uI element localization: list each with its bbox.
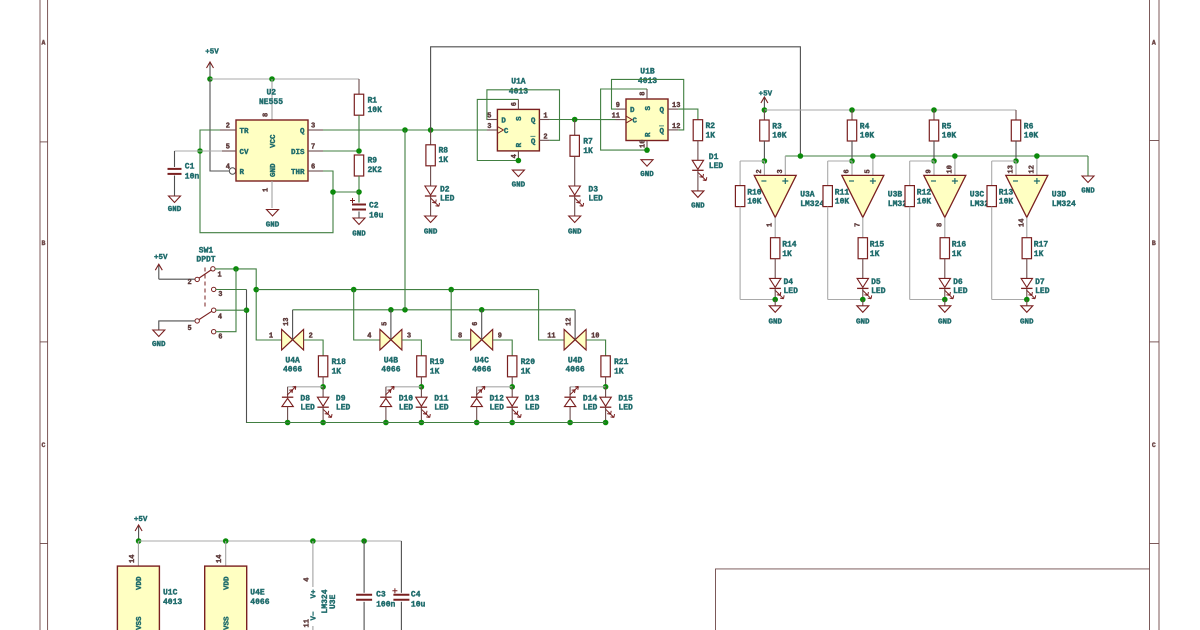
svg-text:5: 5	[187, 325, 191, 333]
wire input bus to U4D pin 11	[539, 290, 565, 340]
resistor R19	[417, 356, 426, 377]
resistor R7	[570, 135, 579, 156]
resistor R5	[929, 120, 938, 141]
U1B pin D stub	[616, 108, 626, 110]
svg-text:5: 5	[226, 144, 230, 152]
wire U3C minus branch	[910, 160, 934, 162]
svg-text:1K: 1K	[430, 367, 440, 376]
svg-text:10u: 10u	[411, 601, 426, 610]
wire R2 to D1	[697, 141, 699, 161]
svg-text:1K: 1K	[332, 367, 342, 376]
svg-text:D11: D11	[434, 395, 449, 404]
svg-text:CV: CV	[240, 149, 250, 157]
svg-text:R9: R9	[368, 157, 378, 166]
svg-text:R4: R4	[860, 122, 870, 131]
wire 4066 input bus	[256, 289, 538, 291]
ic U4E power body	[205, 566, 247, 630]
svg-text:Q: Q	[531, 138, 536, 146]
svg-text:D6: D6	[953, 278, 963, 287]
svg-text:LM324: LM324	[1052, 200, 1076, 209]
svg-text:8: 8	[263, 113, 271, 117]
wire R18 to D9	[322, 377, 324, 387]
svg-text:U4B: U4B	[384, 357, 399, 366]
svg-text:D10: D10	[399, 395, 414, 404]
wire +5V comparator bus	[764, 109, 1016, 111]
capacitor C3 pin bottom	[363, 602, 365, 630]
junction node U1A Q/R7	[572, 117, 578, 123]
U2 pin 4 inversion circle	[229, 168, 235, 174]
U2 pin 6 THR stub	[308, 170, 323, 172]
resistor R11	[823, 186, 832, 207]
capacitor C4 pin bottom	[400, 602, 402, 630]
wire SW1 pin 3 out	[216, 289, 247, 291]
svg-text:10K: 10K	[860, 132, 875, 141]
svg-text:3: 3	[407, 332, 411, 340]
junction node D5 cathode	[860, 297, 866, 303]
wire R14 to D4	[774, 259, 776, 279]
LED D11	[416, 397, 427, 406]
svg-text:4013: 4013	[638, 77, 657, 86]
resistor R18	[318, 356, 327, 377]
+5V power symbol (SW1)	[158, 264, 160, 279]
svg-text:6: 6	[218, 333, 222, 341]
svg-text:R20: R20	[521, 358, 536, 367]
svg-text:4066: 4066	[472, 366, 491, 375]
wire R11 bottom leg	[827, 207, 829, 300]
junction node U3C minus input	[931, 158, 937, 164]
wire D9 top stub	[322, 387, 324, 397]
wire U3D minus branch	[992, 160, 1016, 162]
wire THR branch to C2	[333, 191, 359, 193]
svg-text:2: 2	[309, 332, 313, 340]
svg-text:C: C	[1152, 442, 1156, 449]
junction node D11/return bus	[419, 420, 425, 426]
junction node ctrl/555 Q	[402, 307, 408, 313]
junction node R21/D15/D14	[603, 384, 609, 390]
svg-text:8: 8	[640, 92, 648, 96]
analog switch U4C body	[471, 329, 482, 350]
svg-text:LED: LED	[434, 403, 449, 412]
svg-text:U1C: U1C	[163, 589, 178, 598]
svg-text:VDD: VDD	[224, 576, 232, 590]
junction node +5V/R4	[849, 107, 855, 113]
wire Q to comparator bus link	[431, 47, 801, 156]
svg-text:3: 3	[311, 123, 315, 131]
LED D4	[770, 278, 781, 287]
svg-text:LED: LED	[583, 403, 598, 412]
svg-text:8: 8	[458, 332, 462, 340]
ground symbol below C1	[169, 196, 181, 203]
svg-text:LM324: LM324	[800, 200, 824, 209]
junction node D6 cathode	[942, 297, 948, 303]
svg-text:THR: THR	[291, 169, 305, 177]
svg-text:7: 7	[311, 144, 315, 152]
svg-text:D7: D7	[1035, 278, 1045, 287]
wire D7 to junction	[1026, 289, 1028, 300]
svg-text:3: 3	[487, 123, 491, 131]
svg-text:GND: GND	[1081, 188, 1095, 196]
wire D14 top stub	[569, 387, 571, 397]
svg-text:10K: 10K	[772, 132, 787, 141]
wire U3A output stub	[774, 217, 776, 237]
resistor R17	[1022, 238, 1031, 259]
junction node SW1 pin1/pin6 tie	[233, 266, 239, 272]
svg-text:GND: GND	[152, 341, 166, 349]
svg-text:U4E: U4E	[250, 589, 265, 598]
svg-text:Q: Q	[659, 107, 664, 115]
capacitor C1 pin bottom	[174, 176, 176, 197]
svg-text:14: 14	[129, 555, 137, 563]
svg-text:C2: C2	[369, 202, 379, 211]
svg-text:10K: 10K	[747, 198, 762, 207]
U2 pin 3 Q stub	[308, 129, 323, 131]
svg-text:4066: 4066	[381, 366, 400, 375]
svg-text:10K: 10K	[999, 198, 1014, 207]
svg-text:1: 1	[269, 332, 273, 340]
wire D4 to junction	[774, 289, 776, 300]
svg-text:D: D	[630, 107, 635, 115]
svg-text:R18: R18	[332, 358, 347, 367]
svg-text:2: 2	[543, 133, 547, 141]
svg-text:10: 10	[946, 165, 954, 173]
junction node D9/return bus	[320, 420, 326, 426]
svg-text:Q: Q	[300, 128, 305, 136]
wire D1 to GND	[697, 171, 699, 191]
svg-text:1K: 1K	[1034, 250, 1044, 259]
svg-text:U3B: U3B	[888, 191, 903, 200]
U3B plus mark	[870, 178, 876, 184]
wire D8 link	[288, 386, 324, 388]
U3E pin 11 V- stub	[312, 626, 314, 630]
LED D13	[507, 397, 518, 406]
svg-text:U4C: U4C	[474, 357, 489, 366]
svg-text:D2: D2	[440, 186, 450, 195]
capacitor C4 wire from rail	[400, 541, 402, 593]
wire R6 bottom to minus input	[1015, 141, 1017, 161]
U4D control pin stub	[574, 310, 576, 340]
LED D7	[1021, 278, 1032, 287]
wire +5V power rail	[139, 540, 402, 542]
wire R15 to D5	[862, 259, 864, 279]
ground symbol below D7	[1021, 306, 1033, 313]
LED D6	[939, 278, 950, 287]
wire D14 link	[570, 386, 606, 388]
svg-text:GND: GND	[352, 231, 366, 239]
switch SW1 pole link dashed line	[204, 268, 206, 309]
svg-text:D: D	[501, 118, 506, 126]
svg-text:1K: 1K	[614, 367, 624, 376]
svg-text:10u: 10u	[369, 212, 384, 221]
svg-text:6: 6	[311, 164, 315, 172]
wire SW1 pin3 drop to LED return bus	[247, 290, 288, 423]
svg-text:D14: D14	[583, 395, 598, 404]
svg-text:TR: TR	[240, 128, 250, 136]
svg-text:R19: R19	[430, 358, 445, 367]
svg-text:A: A	[42, 40, 46, 47]
U4A control pin stub	[292, 310, 294, 340]
op-amp U2 NE555 body	[236, 120, 308, 181]
svg-text:4: 4	[303, 577, 311, 581]
svg-text:1K: 1K	[782, 250, 792, 259]
svg-text:5: 5	[487, 113, 491, 121]
svg-text:6: 6	[511, 102, 519, 106]
wire R12 pin top	[909, 161, 911, 186]
wire U4B output to R19	[402, 340, 422, 356]
svg-text:14: 14	[216, 555, 224, 563]
svg-text:D9: D9	[336, 395, 346, 404]
svg-text:R: R	[516, 142, 524, 147]
svg-text:LED: LED	[618, 403, 633, 412]
wire U3C minus stub	[933, 161, 935, 175]
junction node rail/U3E	[310, 538, 316, 544]
wire D10 link	[386, 386, 422, 388]
junction node R19/D11/D10	[419, 384, 425, 390]
wire R13 to LED cathode	[992, 299, 1027, 301]
wire D8 bottom stub	[287, 407, 289, 423]
svg-text:GND: GND	[512, 181, 526, 189]
op-amp U3A body	[754, 175, 796, 217]
wire R10 pin top	[739, 161, 741, 186]
capacitor C2	[352, 204, 366, 206]
wire R4 bottom to minus input	[851, 141, 853, 161]
svg-text:D15: D15	[618, 395, 633, 404]
LED D5	[857, 278, 868, 287]
svg-text:GND: GND	[168, 206, 182, 214]
svg-text:GND: GND	[568, 229, 582, 237]
junction node THR branch	[330, 189, 336, 195]
junction node input bus/U4C	[448, 287, 454, 293]
wire R7 top	[574, 120, 576, 136]
junction node +5V/R3	[762, 107, 768, 113]
wire U3B output stub	[862, 217, 864, 237]
junction node D12/return bus	[474, 420, 480, 426]
op-amp U3C body	[924, 175, 966, 217]
wire R19 to D11	[420, 377, 422, 387]
LED D3	[569, 186, 580, 195]
svg-text:GND: GND	[691, 203, 705, 211]
capacitor C1	[168, 168, 182, 170]
svg-text:4: 4	[367, 332, 371, 340]
U3C minus mark	[931, 180, 936, 182]
wire SW1 pin 4 out	[216, 309, 247, 311]
wire D5 junction to GND	[862, 300, 864, 306]
svg-text:S: S	[516, 116, 524, 121]
analog switch U4D body	[564, 329, 575, 350]
wire R10 bottom leg	[739, 207, 741, 300]
wire +5V to SW1 pin 2	[159, 278, 195, 280]
svg-text:LED: LED	[709, 162, 724, 171]
wire R4 pin top	[851, 110, 853, 120]
svg-text:R11: R11	[835, 188, 850, 197]
svg-text:10K: 10K	[942, 132, 957, 141]
wire D9 bottom stub	[322, 408, 324, 423]
resistor R20	[508, 356, 517, 377]
svg-text:LED: LED	[490, 403, 505, 412]
svg-text:B: B	[42, 240, 46, 247]
wire input bus to U4B pin 4	[354, 290, 380, 340]
wire D7 junction to GND	[1026, 300, 1028, 306]
U3C plus mark	[952, 178, 958, 184]
svg-text:9: 9	[926, 169, 934, 173]
svg-text:LED: LED	[953, 287, 968, 296]
ground symbol below D4	[769, 306, 781, 313]
svg-text:9: 9	[616, 102, 620, 110]
svg-text:8: 8	[936, 223, 944, 227]
wire R11 to LED cathode	[828, 299, 863, 301]
svg-text:4: 4	[226, 164, 230, 172]
svg-text:R1: R1	[368, 97, 378, 106]
svg-text:9: 9	[498, 332, 502, 340]
svg-text:1: 1	[218, 272, 222, 280]
junction node CV tap	[197, 148, 203, 154]
U2 pin 1 GND stub	[271, 181, 273, 208]
svg-text:SW1: SW1	[199, 247, 214, 256]
U1B Qbar to D feedback wire	[612, 79, 684, 129]
svg-text:U3D: U3D	[1052, 191, 1067, 200]
wire SW1 pin 1 out	[215, 269, 282, 340]
U3D plus mark	[1034, 178, 1040, 184]
LED D1	[692, 160, 703, 169]
resistor R15	[858, 238, 867, 259]
svg-text:R21: R21	[614, 358, 629, 367]
U4E pin 14 VDD stub	[225, 541, 227, 566]
wire U4A output to R18	[304, 340, 324, 356]
svg-text:R8: R8	[439, 147, 449, 156]
wire U3D output stub	[1026, 217, 1028, 237]
ground symbol below U1B	[641, 160, 653, 167]
wire R1 pin top	[358, 79, 360, 94]
resistor R8	[426, 145, 435, 166]
wire U3C plus stub	[954, 156, 956, 175]
U1C pin 14 VDD stub	[137, 541, 139, 566]
wire U1A Q to U1B clock	[550, 119, 616, 121]
svg-text:R17: R17	[1034, 241, 1049, 250]
flip-flop U1B body	[626, 99, 668, 141]
svg-text:GND: GND	[640, 171, 654, 179]
junction node bus/Q link	[798, 153, 804, 159]
svg-text:+5V: +5V	[134, 516, 148, 524]
svg-text:LED: LED	[1035, 287, 1050, 296]
svg-text:GND: GND	[270, 163, 278, 177]
svg-text:U4A: U4A	[285, 357, 300, 366]
svg-text:4066: 4066	[250, 598, 269, 607]
svg-text:LED: LED	[871, 287, 886, 296]
svg-text:GND: GND	[938, 319, 952, 327]
capacitor C2 pin bottom	[358, 212, 360, 219]
wire D11 top stub	[420, 387, 422, 397]
U3B minus mark	[849, 180, 854, 182]
wire R8 to D2	[430, 166, 432, 186]
svg-text:1: 1	[543, 113, 547, 121]
wire R11 pin top	[827, 161, 829, 186]
svg-text:4013: 4013	[163, 598, 182, 607]
ground symbol comparator bus	[1082, 176, 1094, 183]
junction node ctrl/U4C	[479, 307, 485, 313]
wire TR feedback loop	[200, 130, 333, 233]
svg-text:LED: LED	[336, 403, 351, 412]
svg-text:+5V: +5V	[759, 91, 773, 99]
wire U3A minus branch	[740, 160, 764, 162]
+5V power symbol (comparator section)	[763, 97, 765, 110]
junction node U3D minus input	[1013, 158, 1019, 164]
svg-text:VSS: VSS	[136, 616, 144, 630]
svg-text:10K: 10K	[368, 106, 383, 115]
U1B pin Qbar stub	[668, 129, 678, 131]
U1B pin S stub	[646, 89, 648, 99]
svg-text:NE555: NE555	[259, 98, 283, 107]
svg-text:GND: GND	[266, 222, 280, 230]
svg-text:LED: LED	[784, 287, 799, 296]
svg-text:R: R	[645, 132, 653, 137]
svg-text:13: 13	[283, 317, 291, 325]
svg-text:U1A: U1A	[511, 78, 526, 87]
junction node U3A minus input	[762, 158, 768, 164]
wire U3B minus branch	[828, 160, 852, 162]
LED D10	[380, 396, 391, 398]
ic U1C power body	[117, 566, 159, 630]
svg-text:V−: V−	[311, 611, 319, 621]
junction node U3B plus input	[870, 153, 876, 159]
wire R6 pin top	[1015, 110, 1017, 120]
ground symbol below C2	[353, 218, 365, 225]
svg-text:12: 12	[566, 317, 574, 325]
wire D5 to junction	[862, 289, 864, 300]
svg-text:10: 10	[591, 332, 599, 340]
junction node VCC	[269, 76, 275, 82]
junction node U1A R/GND	[516, 158, 522, 164]
svg-text:5: 5	[864, 169, 872, 173]
wire D3 to GND	[574, 197, 576, 217]
resistor R4	[847, 120, 856, 141]
svg-text:GND: GND	[768, 319, 782, 327]
wire U3D plus stub	[1036, 156, 1038, 175]
svg-text:C3: C3	[376, 591, 386, 600]
svg-text:D4: D4	[784, 278, 794, 287]
wire R1 bottom to DIS node	[358, 115, 360, 151]
svg-text:2: 2	[756, 169, 764, 173]
svg-text:3: 3	[777, 169, 785, 173]
svg-text:1K: 1K	[952, 250, 962, 259]
svg-text:V+: V+	[311, 589, 319, 599]
wire LED return bus	[247, 422, 606, 424]
wire comparator input bus	[785, 155, 1088, 157]
wire R13 pin top	[991, 161, 993, 186]
svg-text:10K: 10K	[917, 198, 932, 207]
svg-text:1: 1	[767, 223, 775, 227]
junction node U3C plus input	[952, 153, 958, 159]
svg-text:C4: C4	[411, 591, 421, 600]
svg-text:D12: D12	[490, 395, 505, 404]
svg-text:U2: U2	[267, 89, 277, 98]
resistor R10	[735, 186, 744, 207]
svg-text:100n: 100n	[376, 601, 395, 610]
junction node U1B R/GND	[644, 147, 650, 153]
U1A S-R tie wire	[477, 99, 518, 160]
U3D minus mark	[1013, 180, 1018, 182]
svg-text:R: R	[240, 169, 245, 177]
U1A Qbar overline	[530, 135, 535, 137]
svg-text:A: A	[1152, 40, 1156, 47]
svg-text:1K: 1K	[870, 250, 880, 259]
wire SW1 pin 5 to GND	[159, 321, 195, 330]
U3A plus mark	[782, 178, 788, 184]
wire R7 to D3	[574, 156, 576, 186]
svg-text:B: B	[1152, 240, 1156, 247]
flip-flop U1A body	[497, 109, 539, 150]
svg-text:R7: R7	[583, 138, 593, 147]
wire +5V down to pin 4 R	[210, 79, 229, 171]
wire D13 bottom stub	[511, 408, 513, 423]
